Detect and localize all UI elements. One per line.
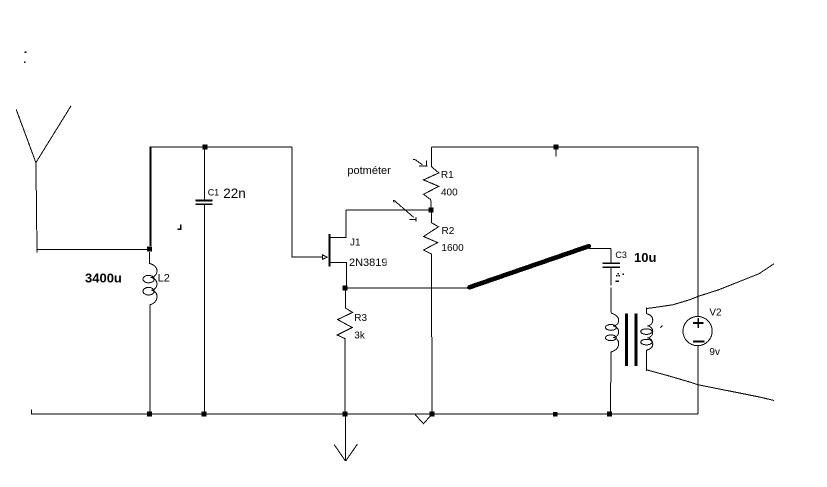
svg-text:1600: 1600 (441, 243, 464, 254)
wire source rail (345, 287, 469, 289)
svg-text:L2: L2 (158, 272, 170, 284)
svg-text:9v: 9v (709, 347, 720, 358)
node C1 top (202, 145, 207, 150)
wire gate branch (292, 147, 322, 257)
source V2 circle (683, 317, 712, 346)
wire secondary top diagonal (647, 264, 774, 309)
svg-text:2N3819: 2N3819 (349, 257, 388, 269)
wire drain to R1R2 node (346, 209, 432, 211)
svg-text:22n: 22n (223, 186, 246, 201)
svg-text:3400u: 3400u (85, 270, 122, 285)
ground arrow R3 (344, 416, 346, 461)
node L2 bottom (147, 412, 152, 417)
node R1 R2 junction (429, 208, 434, 213)
svg-text:R1: R1 (441, 170, 454, 181)
node top rail (553, 144, 558, 149)
svg-text:400: 400 (441, 188, 458, 199)
svg-text:3k: 3k (354, 330, 366, 341)
notch arrowhead at R2 bottom (415, 415, 431, 424)
node R2 bottom (429, 412, 434, 417)
tick below node (555, 149, 557, 157)
node R3 bottom (342, 412, 347, 417)
wire top rail left (149, 146, 292, 148)
faint polarity mark (616, 273, 624, 282)
svg-text:potméter: potméter (347, 165, 391, 177)
wire to C3 (589, 247, 611, 249)
tick bottom left end (30, 409, 32, 414)
svg-text:J1: J1 (350, 238, 361, 249)
transformer secondary coil (646, 308, 652, 371)
node L2 top (147, 247, 152, 252)
stray dot 2 (24, 62, 26, 64)
svg-text:C3: C3 (615, 250, 627, 260)
wire right vertical top (697, 147, 699, 317)
faint arc mark (386, 258, 387, 263)
svg-text:V2: V2 (709, 308, 722, 319)
svg-text:R2: R2 (442, 226, 455, 237)
resistor R1 (424, 147, 439, 208)
wire secondary bottom diagonal (647, 370, 774, 401)
potmeter arrow 1 (413, 159, 428, 166)
stray dot 1 (25, 52, 27, 54)
node transformer bottom (607, 412, 612, 417)
resistor R3 (337, 291, 352, 414)
wire bottom rail (31, 413, 698, 415)
wire bold vertical (top rail to L2 node) (150, 148, 152, 247)
capacitor C1 (203, 147, 205, 200)
capacitor C3 (610, 248, 612, 262)
inductor L2 (150, 252, 157, 414)
wire top rail right (432, 146, 699, 148)
gate arrowhead (323, 255, 328, 259)
resistor R2 (424, 210, 439, 414)
node C1 bottom (202, 412, 207, 417)
minus sign (693, 340, 705, 342)
potmeter arrow 2 (394, 200, 417, 221)
plus sign (693, 322, 703, 324)
wire antenna to L2 (37, 249, 149, 251)
node source (343, 286, 348, 291)
source lead (330, 262, 346, 288)
stray tick near secondary (661, 326, 663, 328)
svg-text:R3: R3 (354, 313, 367, 324)
antenna (16, 109, 37, 252)
stray j mark (180, 224, 181, 230)
switch thick line (470, 246, 589, 287)
node bottom rail (553, 412, 558, 417)
transistor J1 channel (329, 234, 331, 267)
transformer primary coil (610, 313, 618, 414)
svg-text:C1: C1 (208, 188, 220, 198)
drain lead (330, 210, 346, 237)
transformer core bars (625, 314, 628, 367)
svg-text:10u: 10u (634, 250, 656, 265)
wire right vertical bottom (697, 346, 699, 414)
